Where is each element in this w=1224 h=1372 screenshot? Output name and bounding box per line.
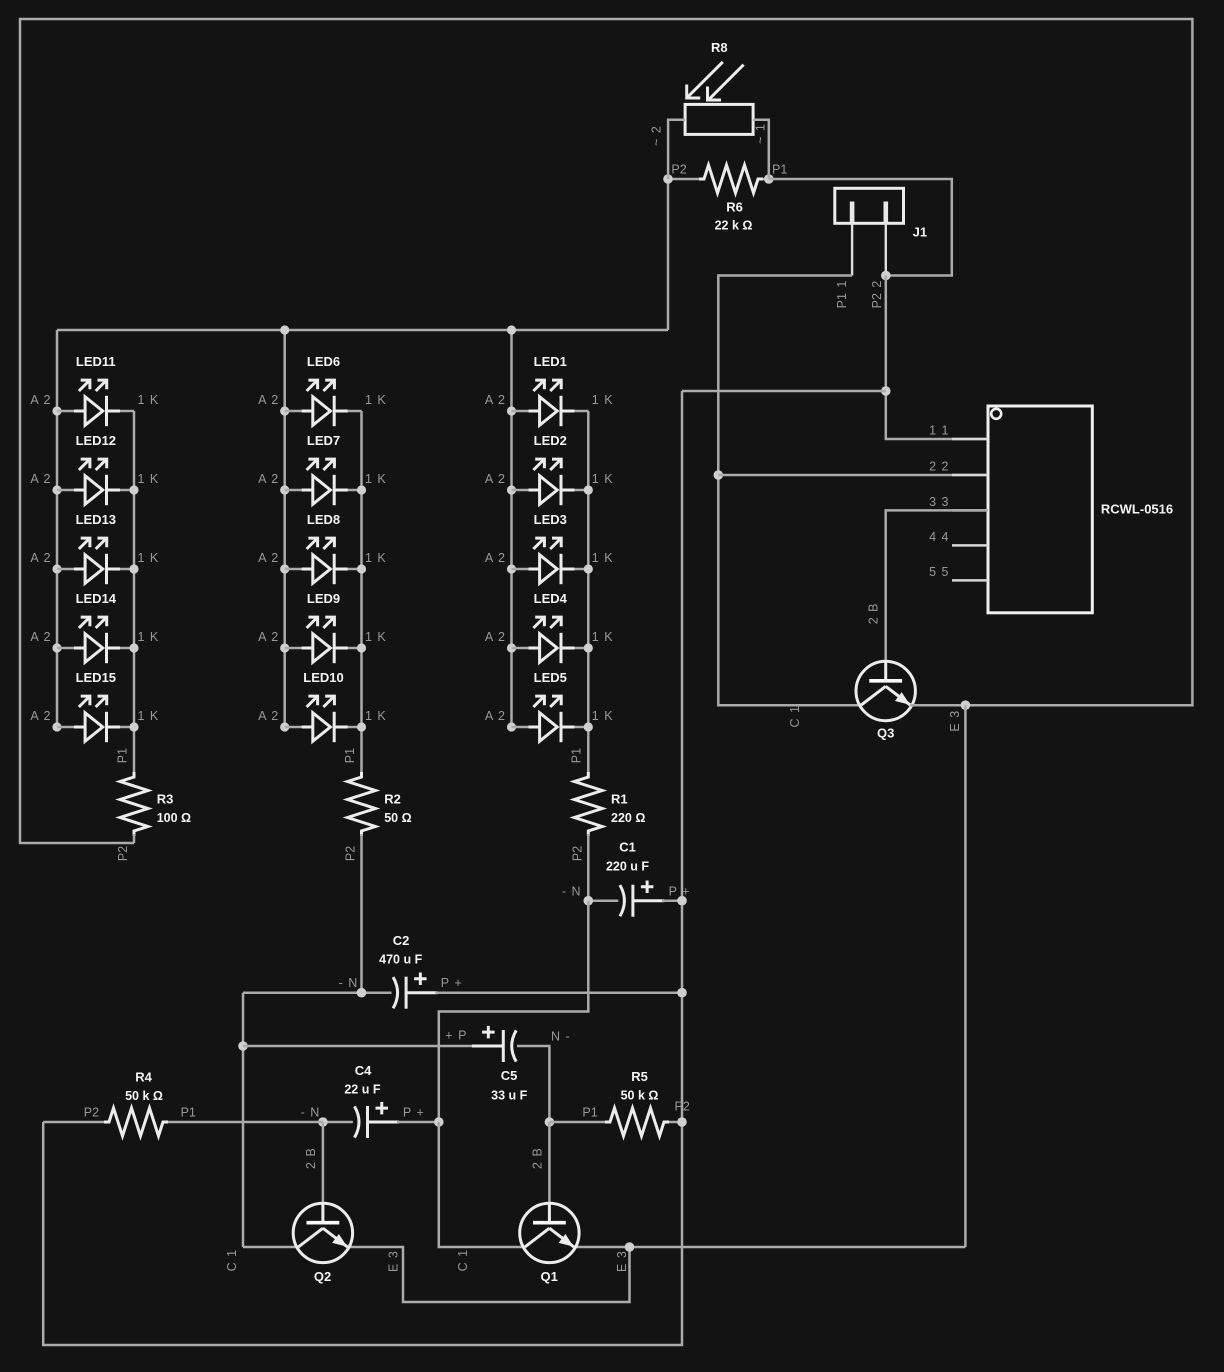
svg-text:LED6: LED6 xyxy=(307,354,340,369)
wire supply branch to main vertical xyxy=(682,390,886,393)
wire RCWL pin 2 xyxy=(718,474,988,477)
resistor R1 xyxy=(570,748,646,901)
node anode rail col3 junction xyxy=(507,325,516,334)
wire Q1 collector xyxy=(439,1122,525,1247)
node C1.P on supply vertical xyxy=(677,896,687,906)
svg-text:LED13: LED13 xyxy=(76,512,116,527)
wire R6.P1 to J1.P2 wrap xyxy=(769,179,952,276)
svg-text:A 2: A 2 xyxy=(258,472,278,486)
wire anode rail x=511.5 xyxy=(510,330,513,727)
svg-text:R5: R5 xyxy=(631,1069,648,1084)
svg-text:LED5: LED5 xyxy=(534,670,567,685)
capacitor C4 22uF xyxy=(301,1063,439,1138)
node C4.N / Q2 base xyxy=(318,1117,328,1127)
wire cathode rail x=361.5 xyxy=(360,411,363,774)
photoresistor R8 (LDR) xyxy=(650,40,769,179)
svg-text:1 K: 1 K xyxy=(138,393,159,407)
svg-text:220 u F: 220 u F xyxy=(606,860,649,874)
svg-text:LED10: LED10 xyxy=(303,670,343,685)
svg-text:Q3: Q3 xyxy=(877,726,894,741)
node anode rail col2 junction xyxy=(280,325,289,334)
LED LED6 xyxy=(258,354,386,426)
svg-text:LED4: LED4 xyxy=(534,591,568,606)
svg-text:1 K: 1 K xyxy=(592,709,613,723)
LED LED12 xyxy=(30,433,159,505)
node LED15 cathode junction xyxy=(129,722,138,731)
svg-text:A 2: A 2 xyxy=(485,393,505,407)
svg-text:1 K: 1 K xyxy=(592,393,613,407)
svg-text:3 3: 3 3 xyxy=(929,495,948,509)
capacitor C1 220uF xyxy=(562,840,690,917)
wire J1.P1 to RCWL pin2 and Q3 collector xyxy=(718,276,861,706)
module RCWL-0516 U1 xyxy=(929,406,1173,613)
svg-text:1 K: 1 K xyxy=(138,472,159,486)
svg-text:A 2: A 2 xyxy=(30,630,50,644)
svg-text:R8: R8 xyxy=(711,40,728,55)
resistor R3 xyxy=(115,748,191,861)
svg-text:P2: P2 xyxy=(570,846,584,861)
wire anode rail x=284.7 xyxy=(283,330,286,727)
wire Q2 collector xyxy=(243,1246,298,1249)
svg-text:C 1: C 1 xyxy=(456,1250,470,1272)
svg-text:C5: C5 xyxy=(501,1068,518,1083)
svg-text:22 u F: 22 u F xyxy=(344,1082,380,1096)
wire Q1 emitter to Q3 riser xyxy=(574,1246,966,1249)
resistor R2 xyxy=(343,748,412,993)
LED LED10 xyxy=(258,670,386,742)
svg-text:P1: P1 xyxy=(582,1106,597,1120)
svg-text:A 2: A 2 xyxy=(30,393,50,407)
wire cathode rail x=134.0 xyxy=(133,411,136,774)
svg-text:~ 2: ~ 2 xyxy=(650,126,664,146)
capacitor C2 470uF xyxy=(243,933,682,1009)
connector J1 xyxy=(835,188,927,308)
svg-text:R2: R2 xyxy=(384,792,401,807)
svg-text:P2: P2 xyxy=(671,163,686,177)
svg-text:50 k Ω: 50 k Ω xyxy=(125,1089,163,1103)
node LED4 cathode junction xyxy=(584,643,593,652)
transistor Q1 xyxy=(456,1148,629,1284)
svg-text:LED7: LED7 xyxy=(307,433,340,448)
node LED12 cathode junction xyxy=(129,485,138,494)
LED LED11 xyxy=(30,354,159,426)
svg-text:P +: P + xyxy=(441,976,462,990)
svg-text:LED3: LED3 xyxy=(534,512,567,527)
svg-text:C 1: C 1 xyxy=(788,706,802,728)
svg-text:50 k Ω: 50 k Ω xyxy=(621,1089,659,1103)
svg-text:R6: R6 xyxy=(726,200,743,215)
svg-text:P2: P2 xyxy=(84,1106,99,1120)
LED LED8 xyxy=(258,512,386,584)
wire ground loop (R3.P2 - left border - top border - right border - Q3 emitter) xyxy=(20,19,1192,843)
node LED9 cathode junction xyxy=(357,643,366,652)
node LED10 cathode junction xyxy=(357,722,366,731)
wire anode rail x=57.0 xyxy=(56,330,59,727)
node C5 branch xyxy=(238,1041,248,1051)
svg-text:LED11: LED11 xyxy=(76,354,116,369)
svg-text:P2: P2 xyxy=(344,846,358,861)
svg-text:LED14: LED14 xyxy=(76,591,117,606)
svg-text:+ P: + P xyxy=(445,1029,466,1043)
wire cathode rail x=588.3 xyxy=(587,411,590,774)
svg-text:5 5: 5 5 xyxy=(929,565,948,579)
svg-text:A 2: A 2 xyxy=(485,709,505,723)
wire Q2 base xyxy=(322,1122,325,1203)
svg-text:A 2: A 2 xyxy=(258,393,278,407)
svg-text:1 K: 1 K xyxy=(365,709,386,723)
svg-text:C 1: C 1 xyxy=(225,1250,239,1272)
svg-text:2 B: 2 B xyxy=(304,1148,318,1169)
svg-text:22 k Ω: 22 k Ω xyxy=(715,219,753,233)
node J1.P2 xyxy=(881,271,891,281)
node LED14 cathode junction xyxy=(129,643,138,652)
transistor Q3 xyxy=(788,604,962,741)
LED LED4 xyxy=(485,591,613,663)
svg-text:P +: P + xyxy=(669,884,690,898)
svg-text:Q2: Q2 xyxy=(314,1269,331,1284)
resistor R5 50k xyxy=(549,1069,689,1136)
LED LED5 xyxy=(485,670,613,742)
svg-text:1 K: 1 K xyxy=(592,630,613,644)
LED LED2 xyxy=(485,433,613,505)
svg-text:LED8: LED8 xyxy=(307,512,340,527)
svg-text:A 2: A 2 xyxy=(485,630,505,644)
node RCWL pin2 branch xyxy=(714,470,724,480)
svg-text:A 2: A 2 xyxy=(485,551,505,565)
wire Q1 base xyxy=(548,1122,551,1203)
svg-text:P2 2: P2 2 xyxy=(870,281,884,309)
LED LED7 xyxy=(258,433,386,505)
svg-text:1 K: 1 K xyxy=(592,551,613,565)
svg-text:P1 1: P1 1 xyxy=(835,281,849,309)
LED LED3 xyxy=(485,512,613,584)
svg-text:A 2: A 2 xyxy=(258,551,278,565)
node LED7 cathode junction xyxy=(357,485,366,494)
node LED3 cathode junction xyxy=(584,564,593,573)
svg-text:P1: P1 xyxy=(570,748,584,763)
svg-text:R4: R4 xyxy=(135,1070,152,1085)
svg-text:A 2: A 2 xyxy=(258,630,278,644)
svg-text:2 B: 2 B xyxy=(867,604,881,625)
svg-text:LED9: LED9 xyxy=(307,591,340,606)
svg-text:P2: P2 xyxy=(116,846,130,861)
node C5.N / Q1 base / R5.P1 xyxy=(545,1117,555,1127)
node LED13 cathode junction xyxy=(129,564,138,573)
svg-text:2 2: 2 2 xyxy=(929,460,948,474)
node LED5 cathode junction xyxy=(584,722,593,731)
svg-text:C1: C1 xyxy=(619,840,636,855)
svg-text:A 2: A 2 xyxy=(485,472,505,486)
svg-text:P2: P2 xyxy=(675,1100,690,1114)
wire J1.P2 to RCWL pin 1 xyxy=(886,276,988,440)
wire Q3 emitter xyxy=(910,704,965,707)
LED LED13 xyxy=(30,512,159,584)
svg-text:P1: P1 xyxy=(772,163,787,177)
svg-text:C2: C2 xyxy=(393,933,410,948)
node C2.N xyxy=(357,988,367,998)
wire LED anode top rail xyxy=(57,329,668,332)
LED LED9 xyxy=(258,591,386,663)
svg-text:LED1: LED1 xyxy=(534,354,567,369)
svg-text:- N: - N xyxy=(339,976,358,990)
svg-text:R3: R3 xyxy=(157,792,174,807)
node supply branch xyxy=(881,386,891,396)
wire RCWL pin 3 to Q3 base xyxy=(886,510,988,661)
svg-text:J1: J1 xyxy=(913,225,927,240)
capacitor C5 33uF xyxy=(243,1026,570,1122)
svg-text:1 K: 1 K xyxy=(365,551,386,565)
svg-text:1 K: 1 K xyxy=(138,709,159,723)
node Q3 emitter junction xyxy=(961,700,971,710)
svg-text:E 3: E 3 xyxy=(948,711,962,732)
svg-text:A 2: A 2 xyxy=(30,472,50,486)
svg-text:220 Ω: 220 Ω xyxy=(611,811,645,825)
svg-text:- N: - N xyxy=(301,1105,320,1119)
node R6.P1 xyxy=(764,174,774,184)
svg-text:RCWL-0516: RCWL-0516 xyxy=(1101,501,1173,516)
LED LED14 xyxy=(30,591,159,663)
svg-text:P +: P + xyxy=(403,1105,424,1119)
svg-text:E 3: E 3 xyxy=(615,1251,629,1272)
svg-text:1 K: 1 K xyxy=(365,630,386,644)
wire Q2 emitter to Q1 emitter xyxy=(347,1247,629,1302)
LED LED15 xyxy=(30,670,159,742)
svg-text:33 u F: 33 u F xyxy=(491,1089,527,1103)
node Q1 emitter junction xyxy=(625,1242,635,1252)
svg-text:1 1: 1 1 xyxy=(929,424,948,438)
node C4.P / Q1 collector xyxy=(434,1117,444,1127)
svg-text:N -: N - xyxy=(551,1030,570,1044)
node LED8 cathode junction xyxy=(357,564,366,573)
svg-text:P1: P1 xyxy=(343,748,357,763)
wire R6.P2 to anode rail xyxy=(667,179,670,330)
svg-text:P1: P1 xyxy=(115,748,129,763)
svg-text:C4: C4 xyxy=(355,1063,372,1078)
svg-text:A 2: A 2 xyxy=(30,709,50,723)
svg-text:50 Ω: 50 Ω xyxy=(384,811,411,825)
svg-text:1 K: 1 K xyxy=(138,551,159,565)
node C1.N xyxy=(584,896,594,906)
svg-text:2 B: 2 B xyxy=(530,1148,544,1169)
resistor R6 22k xyxy=(668,163,787,233)
node C2.P on supply vertical xyxy=(677,988,687,998)
svg-text:P1: P1 xyxy=(181,1106,196,1120)
wire main supply vertical / bottom rail / left return xyxy=(43,391,682,1345)
svg-text:Q1: Q1 xyxy=(541,1269,558,1284)
node LED2 cathode junction xyxy=(584,485,593,494)
node R5.P2 on supply vertical xyxy=(677,1117,687,1127)
svg-text:~ 1: ~ 1 xyxy=(754,124,768,144)
svg-text:A 2: A 2 xyxy=(30,551,50,565)
resistor R4 50k xyxy=(43,1070,323,1137)
LED LED1 xyxy=(485,354,613,426)
svg-text:- N: - N xyxy=(562,884,581,898)
wire C2.N down to Q2 collector xyxy=(242,993,245,1247)
svg-text:1 K: 1 K xyxy=(592,472,613,486)
node R6.P2 xyxy=(663,174,673,184)
svg-text:470 u F: 470 u F xyxy=(379,953,422,967)
svg-text:1 K: 1 K xyxy=(138,630,159,644)
svg-text:1 K: 1 K xyxy=(365,472,386,486)
svg-text:E 3: E 3 xyxy=(387,1251,401,1272)
svg-text:LED15: LED15 xyxy=(76,670,116,685)
svg-text:A 2: A 2 xyxy=(258,709,278,723)
svg-text:R1: R1 xyxy=(611,792,628,807)
transistor Q2 xyxy=(225,1148,400,1284)
wire Q3 emitter to Q1 emitter riser xyxy=(964,705,967,1247)
svg-text:4 4: 4 4 xyxy=(929,530,948,544)
svg-text:LED2: LED2 xyxy=(534,433,567,448)
wire C1.N to Q1 collector branch xyxy=(439,901,589,1122)
svg-text:1 K: 1 K xyxy=(365,393,386,407)
svg-text:100 Ω: 100 Ω xyxy=(157,811,191,825)
svg-text:LED12: LED12 xyxy=(76,433,116,448)
